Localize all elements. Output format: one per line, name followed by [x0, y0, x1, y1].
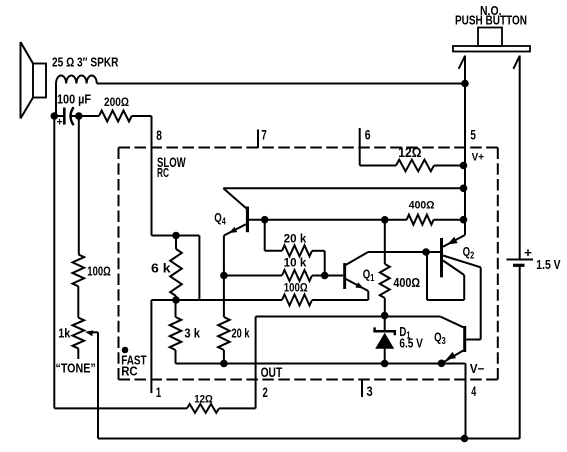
svg-text:1: 1	[156, 385, 162, 400]
svg-text:200Ω: 200Ω	[104, 97, 129, 109]
svg-text:2: 2	[263, 385, 268, 400]
svg-text:6.5 V: 6.5 V	[399, 337, 423, 351]
svg-text:25 Ω 3″ SPKR: 25 Ω 3″ SPKR	[52, 55, 119, 70]
svg-text:100Ω: 100Ω	[284, 283, 308, 295]
svg-text:+: +	[57, 116, 63, 128]
svg-text:400Ω: 400Ω	[409, 200, 435, 212]
svg-text:6: 6	[365, 128, 371, 143]
svg-text:OUT: OUT	[261, 365, 283, 380]
svg-text:6 k: 6 k	[151, 261, 171, 276]
svg-text:V+: V+	[472, 152, 484, 164]
svg-text:20 k: 20 k	[232, 326, 251, 341]
svg-text:3 k: 3 k	[184, 326, 200, 341]
svg-text:8: 8	[156, 128, 162, 143]
svg-text:RC: RC	[157, 165, 169, 180]
svg-text:20 k: 20 k	[284, 233, 307, 245]
svg-text:100 µF: 100 µF	[57, 93, 91, 107]
svg-text:“TONE”: “TONE”	[56, 361, 96, 376]
svg-text:100Ω: 100Ω	[87, 265, 110, 279]
svg-text:12Ω: 12Ω	[194, 394, 213, 406]
svg-text:PUSH BUTTON: PUSH BUTTON	[455, 13, 527, 28]
svg-text:5: 5	[470, 128, 476, 143]
svg-text:10 k: 10 k	[284, 257, 307, 269]
svg-text:3: 3	[367, 384, 374, 399]
svg-text:400Ω: 400Ω	[393, 275, 420, 290]
svg-text:+: +	[524, 246, 532, 260]
svg-text:RC: RC	[121, 364, 138, 379]
svg-text:V−: V−	[470, 362, 484, 376]
svg-text:1.5 V: 1.5 V	[536, 258, 561, 272]
svg-text:7: 7	[261, 128, 266, 143]
svg-text:12Ω: 12Ω	[398, 145, 421, 160]
svg-text:4: 4	[471, 384, 476, 399]
svg-text:1k: 1k	[58, 326, 71, 341]
